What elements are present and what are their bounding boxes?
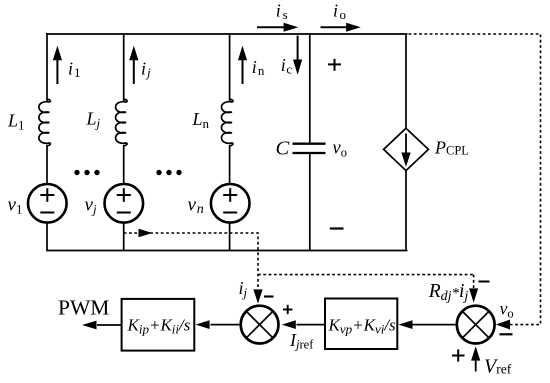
current arrow ic [293,36,302,75]
wire branch2 lower [123,223,125,251]
wire bottom bus [46,250,407,252]
arrowhead into Kip block [196,320,210,329]
minus sign at S1 top [264,295,274,297]
inductor Ln [222,99,233,146]
svg-text:vo: vo [333,139,347,160]
block Kip+Kii/s [122,299,195,351]
svg-text:Ln: Ln [192,109,210,131]
svg-text:Vref: Vref [484,356,512,378]
wire branch1 upper [46,33,48,101]
arrowhead ij sense mid [139,229,153,238]
plus sign vo polarity [328,59,341,71]
wire branch3 lower [229,223,231,251]
plus sign at S2 bottom [452,349,465,361]
wire Kvp block to S1 [297,324,326,326]
wire branch3 mid [229,145,231,184]
current arrow i1 [53,46,62,84]
svg-text:is: is [276,1,288,23]
source v1 [28,184,67,223]
plus sign at S1 right [283,305,293,314]
current arrow io [321,23,361,32]
svg-text:ij: ij [239,278,248,300]
dashed feedback vo sense [409,34,541,325]
svg-text:vj: vj [85,195,97,217]
svg-text:vn: vn [188,195,204,218]
arrowhead into S1 [282,320,296,329]
PCPL inner arrow [401,134,410,167]
svg-text:Kvp+Kvi/s: Kvp+Kvi/s [328,315,397,336]
wire branch2 mid [123,145,125,184]
svg-text:ic: ic [281,55,293,77]
wire Kip block to PWM [97,324,122,326]
arrowhead vo into right summing junction [496,320,510,330]
svg-text:C: C [276,138,290,160]
svg-text:Kip+Kii/s: Kip+Kii/s [127,315,191,336]
svg-text:PWM: PWM [58,295,109,319]
arrowhead into left summing junction [253,289,262,303]
source vj [105,184,144,223]
source vn [211,184,250,223]
wire branch1 mid [46,145,48,184]
ellipsis dots set 1 [74,170,99,175]
wire S1 to Kip block [211,324,241,326]
minus sign below vo arrow [500,333,513,335]
capacitor C [293,144,326,153]
wire top bus [46,33,407,35]
ellipsis dots set 2 [156,170,181,175]
wire PCPL branch upper [405,33,407,128]
svg-text:in: in [252,57,265,78]
arrowhead into right summing junction top [469,288,478,302]
svg-text:Rdj*ij: Rdj*ij [428,281,469,304]
svg-text:io: io [333,1,346,23]
minus sign at S2 top [479,281,490,283]
svg-text:ij: ij [141,59,151,81]
svg-text:PCPL: PCPL [434,138,469,158]
wire branch3 upper [229,33,231,101]
wire branch1 lower [46,223,48,251]
minus sign vo polarity [330,227,344,229]
inductor L1 [39,99,50,146]
arrowhead into Kvp block [399,320,413,329]
block Kvp+Kvi/s [325,299,397,350]
current arrow in [238,46,247,84]
dashed feedback ij sense horizontal [124,34,541,325]
wire branch2 upper [123,33,125,101]
current source PCPL diamond [384,128,429,170]
inductor Lj [116,99,127,146]
summing junction S2 [457,306,495,344]
summing junction S1 [241,306,279,344]
svg-text:vo: vo [500,299,514,321]
svg-text:v1: v1 [8,195,23,217]
wire capacitor branch lower [309,153,311,251]
wire PCPL branch lower [405,171,407,251]
svg-text:Lj: Lj [86,109,101,131]
wire Vref into S2 [475,360,477,372]
svg-text:Ijref: Ijref [289,330,314,352]
arrowhead Vref into S2 [471,346,480,360]
wire capacitor branch upper [309,33,311,143]
svg-text:L1: L1 [7,111,25,133]
current arrow ij [129,46,138,84]
arrowhead PWM output [82,321,97,330]
current arrow is [257,23,298,32]
wire S2 to Kvp block [412,324,456,326]
svg-text:i1: i1 [68,59,81,81]
